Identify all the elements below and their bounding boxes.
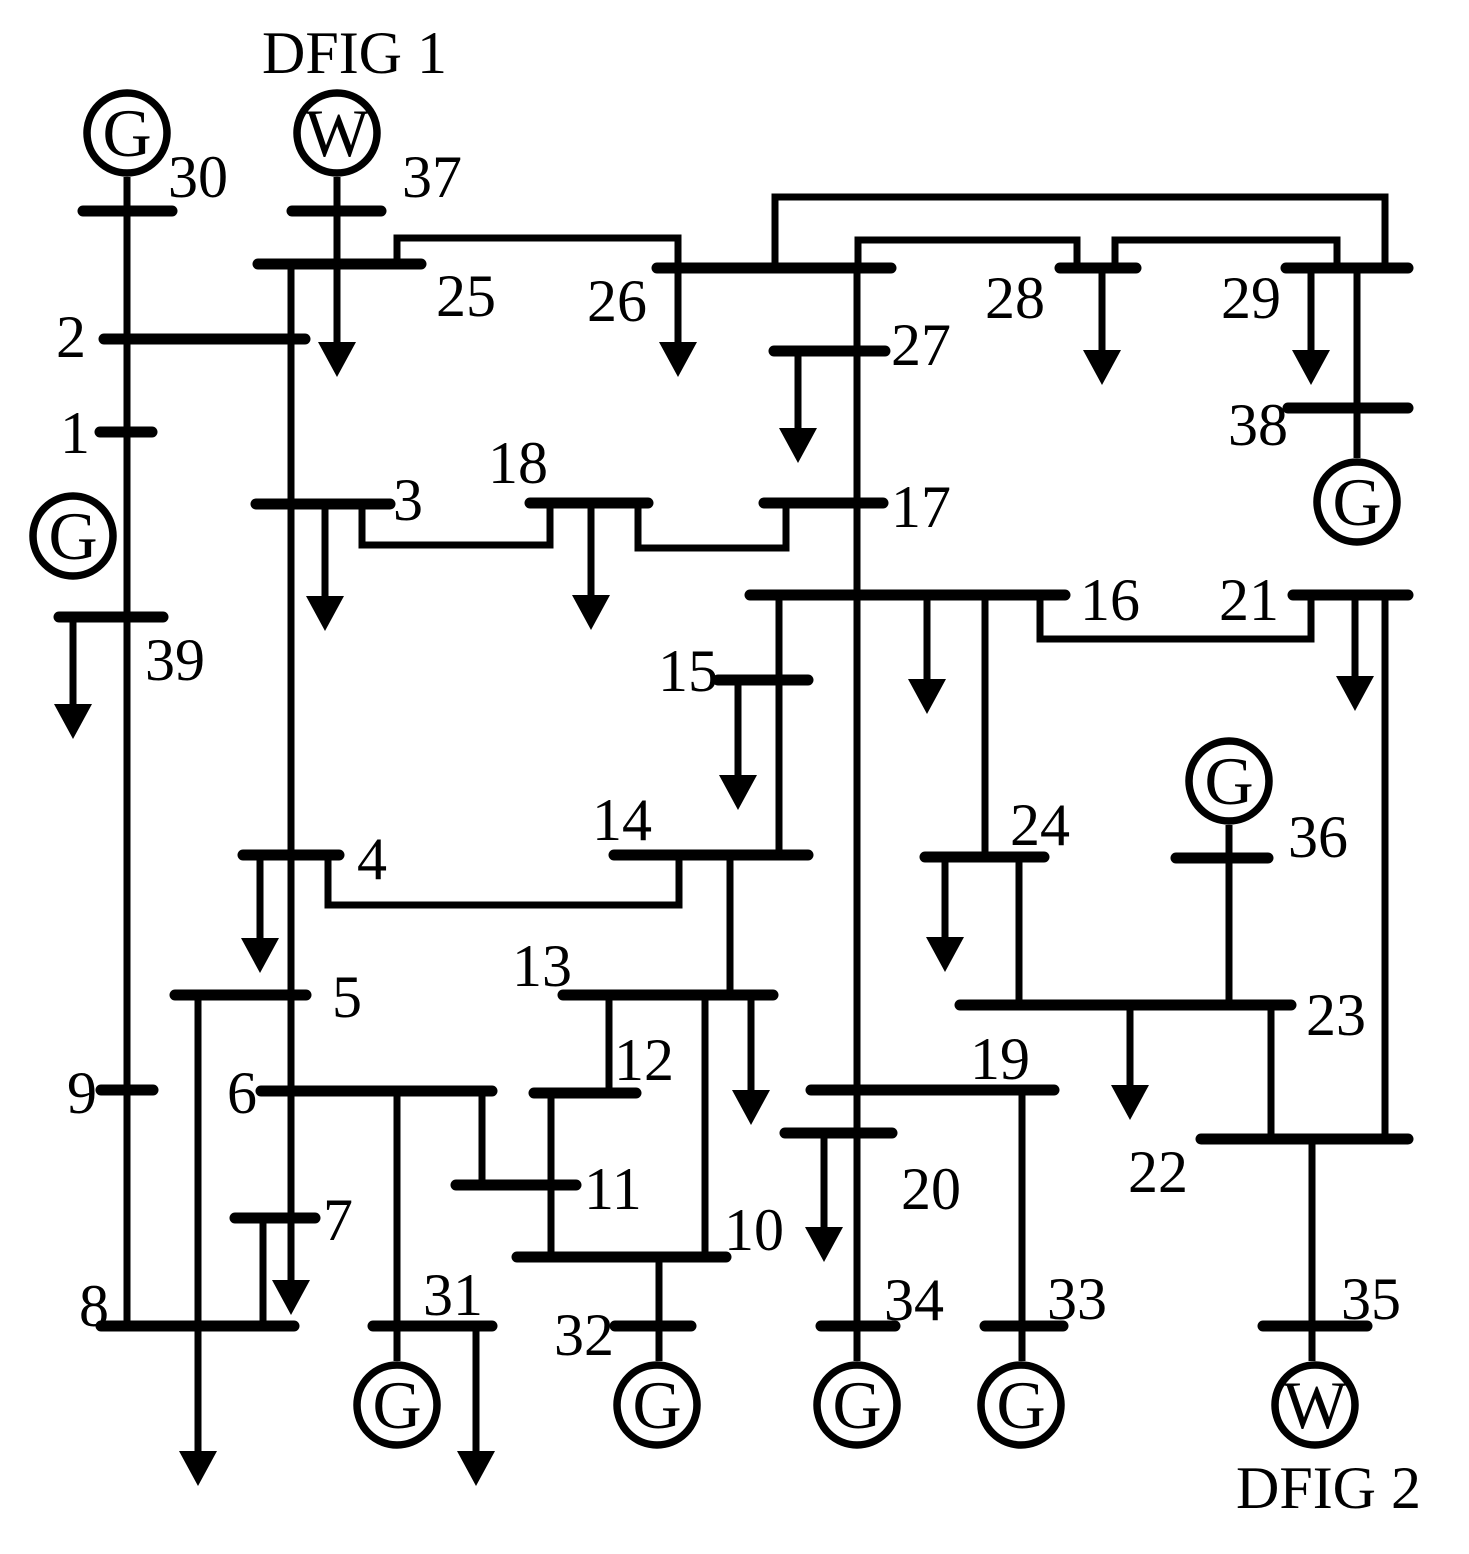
bus 18	[530, 498, 648, 509]
load arrow bus 28	[1083, 268, 1121, 385]
bus 7	[235, 1213, 315, 1224]
bus 30	[83, 206, 172, 217]
svg-text:7: 7	[323, 1187, 353, 1253]
bus 25	[258, 259, 421, 270]
svg-text:29: 29	[1221, 265, 1281, 331]
svg-text:12: 12	[614, 1027, 674, 1093]
wire 25-2-3-4-5-6-7 trunk	[288, 264, 295, 1218]
svg-text:23: 23	[1306, 982, 1366, 1048]
wire 13-12	[606, 995, 613, 1093]
wire 19-33-G33	[1019, 1090, 1026, 1361]
svg-text:9: 9	[67, 1060, 97, 1126]
wire 21-22	[1382, 595, 1389, 1139]
svg-text:33: 33	[1047, 1266, 1107, 1332]
svg-text:6: 6	[227, 1060, 257, 1126]
load arrow bus 7	[272, 1218, 310, 1315]
svg-text:W: W	[1283, 1367, 1348, 1443]
bus 33	[985, 1321, 1063, 1332]
bus 23	[960, 1000, 1291, 1011]
wire 7-8	[260, 1218, 267, 1326]
svg-text:14: 14	[592, 787, 652, 853]
wire 14-13	[727, 855, 734, 995]
svg-text:G: G	[372, 1367, 421, 1443]
bus 27	[774, 346, 885, 357]
bus 10	[517, 1252, 726, 1263]
wire 22-35-W35	[1309, 1139, 1316, 1361]
load arrow bus 4	[241, 855, 279, 973]
svg-text:G: G	[1332, 464, 1381, 540]
wire 28-29	[1115, 240, 1337, 268]
bus 35	[1263, 1321, 1367, 1332]
generator G34	[817, 1365, 897, 1445]
svg-text:26: 26	[587, 268, 647, 334]
bus 3	[256, 499, 390, 510]
svg-text:G: G	[1204, 743, 1253, 819]
load arrow bus 20	[805, 1133, 843, 1262]
bus 24	[925, 852, 1044, 863]
generator G36	[1189, 741, 1269, 821]
wire 30-2-1-39-9-8 trunk	[124, 177, 131, 1326]
svg-text:3: 3	[393, 467, 423, 533]
wire 12-11-10	[548, 1093, 555, 1257]
svg-text:17: 17	[891, 474, 951, 540]
wire 6-31-G31	[394, 1091, 401, 1361]
svg-text:11: 11	[584, 1156, 642, 1222]
bus 5	[175, 990, 306, 1001]
svg-text:34: 34	[884, 1267, 944, 1333]
svg-text:37: 37	[402, 144, 462, 210]
wire 16-24	[982, 595, 989, 857]
svg-text:G: G	[632, 1367, 681, 1443]
svg-text:DFIG 2: DFIG 2	[1236, 1455, 1421, 1521]
svg-text:19: 19	[970, 1026, 1030, 1092]
generator G38	[1317, 462, 1397, 542]
wire 18-17	[638, 503, 786, 548]
bus 26	[657, 263, 891, 274]
svg-text:13: 13	[512, 933, 572, 999]
bus 36	[1176, 853, 1268, 864]
load arrow bus 29	[1292, 268, 1330, 385]
wire 26-28	[858, 240, 1077, 268]
load arrow bus 15	[719, 680, 757, 810]
bus 39	[59, 612, 163, 623]
bus 32	[615, 1321, 691, 1332]
wire 34-G34	[854, 1326, 861, 1361]
bus 28	[1060, 263, 1136, 274]
bus 8	[101, 1321, 294, 1332]
load arrow bus 16	[908, 595, 946, 714]
bus 29	[1286, 263, 1408, 274]
wire 37-25	[334, 177, 341, 264]
svg-text:36: 36	[1288, 804, 1348, 870]
wire 23-22	[1268, 1005, 1275, 1139]
wire 3-18	[362, 503, 550, 545]
wire 6-11	[479, 1091, 486, 1185]
svg-text:DFIG 1: DFIG 1	[262, 20, 447, 86]
generator G30	[87, 93, 167, 173]
svg-text:39: 39	[145, 627, 205, 693]
wire 26-29	[775, 197, 1385, 268]
load arrow bus 8	[179, 1326, 217, 1486]
load arrow bus 21	[1336, 595, 1374, 711]
wire 5-8	[195, 995, 202, 1326]
svg-text:30: 30	[168, 144, 228, 210]
svg-text:G: G	[48, 498, 97, 574]
load arrow bus 18	[572, 503, 610, 630]
wire 25-26	[397, 238, 678, 268]
svg-text:1: 1	[60, 400, 90, 466]
svg-text:G: G	[832, 1367, 881, 1443]
bus 1	[100, 427, 152, 438]
bus 11	[456, 1180, 576, 1191]
svg-text:35: 35	[1341, 1266, 1401, 1332]
load arrow bus 25	[318, 264, 356, 377]
generator G32	[617, 1365, 697, 1445]
load arrow bus 27	[779, 351, 817, 463]
load arrow bus 24	[926, 857, 964, 972]
svg-text:16: 16	[1080, 567, 1140, 633]
svg-text:G: G	[102, 95, 151, 171]
svg-text:22: 22	[1128, 1139, 1188, 1205]
bus 4	[243, 850, 339, 861]
svg-text:21: 21	[1219, 567, 1279, 633]
generator G39	[33, 496, 113, 576]
bus 12	[534, 1088, 636, 1099]
svg-text:31: 31	[423, 1262, 483, 1328]
bus 9	[101, 1085, 153, 1096]
load arrow bus 3	[306, 504, 344, 631]
bus 2	[104, 334, 305, 345]
load arrow bus 26	[659, 268, 697, 377]
svg-text:20: 20	[901, 1156, 961, 1222]
svg-text:15: 15	[658, 638, 718, 704]
bus 34	[821, 1321, 895, 1332]
load arrow bus 39	[54, 617, 92, 739]
bus 20	[785, 1128, 892, 1139]
svg-text:4: 4	[357, 826, 387, 892]
wire 24-23	[1016, 857, 1023, 1005]
load arrow bus 23	[1111, 1005, 1149, 1120]
generator W35 DFIG2	[1275, 1365, 1355, 1445]
bus 37	[292, 206, 381, 217]
wire 16-15-14	[776, 595, 783, 855]
load arrow bus 31	[457, 1326, 495, 1486]
bus 17	[764, 498, 883, 509]
svg-text:25: 25	[436, 263, 496, 329]
svg-text:24: 24	[1010, 792, 1070, 858]
generator W37 DFIG1	[297, 93, 377, 173]
svg-text:8: 8	[79, 1273, 109, 1339]
svg-text:27: 27	[891, 312, 951, 378]
generator G33	[981, 1365, 1061, 1445]
svg-text:10: 10	[724, 1197, 784, 1263]
svg-text:28: 28	[985, 265, 1045, 331]
bus 38	[1288, 403, 1408, 414]
svg-text:2: 2	[56, 304, 86, 370]
svg-text:W: W	[305, 95, 370, 171]
bus 6	[261, 1086, 492, 1097]
svg-text:18: 18	[488, 430, 548, 496]
bus 19	[811, 1085, 1054, 1096]
svg-text:38: 38	[1228, 392, 1288, 458]
wire 10-32-G32	[656, 1257, 663, 1361]
wire 29-38-G38	[1354, 268, 1361, 458]
svg-text:32: 32	[554, 1302, 614, 1368]
bus 15	[718, 675, 808, 686]
wire 26-27-17-16-19-20-34 trunk	[854, 268, 861, 1326]
bus 22	[1201, 1134, 1408, 1145]
bus 16	[750, 590, 1065, 601]
wire 13-10	[702, 995, 709, 1257]
bus 14	[614, 850, 808, 861]
load arrow bus 13	[732, 995, 770, 1125]
bus 31	[373, 1321, 492, 1332]
svg-text:G: G	[996, 1367, 1045, 1443]
generator G31	[357, 1365, 437, 1445]
wire 4-14	[328, 855, 679, 905]
bus 13	[563, 990, 773, 1001]
bus 21	[1293, 590, 1408, 601]
svg-text:5: 5	[332, 964, 362, 1030]
wire 16-21	[1040, 595, 1311, 639]
wire G36-36-23	[1226, 825, 1233, 1005]
